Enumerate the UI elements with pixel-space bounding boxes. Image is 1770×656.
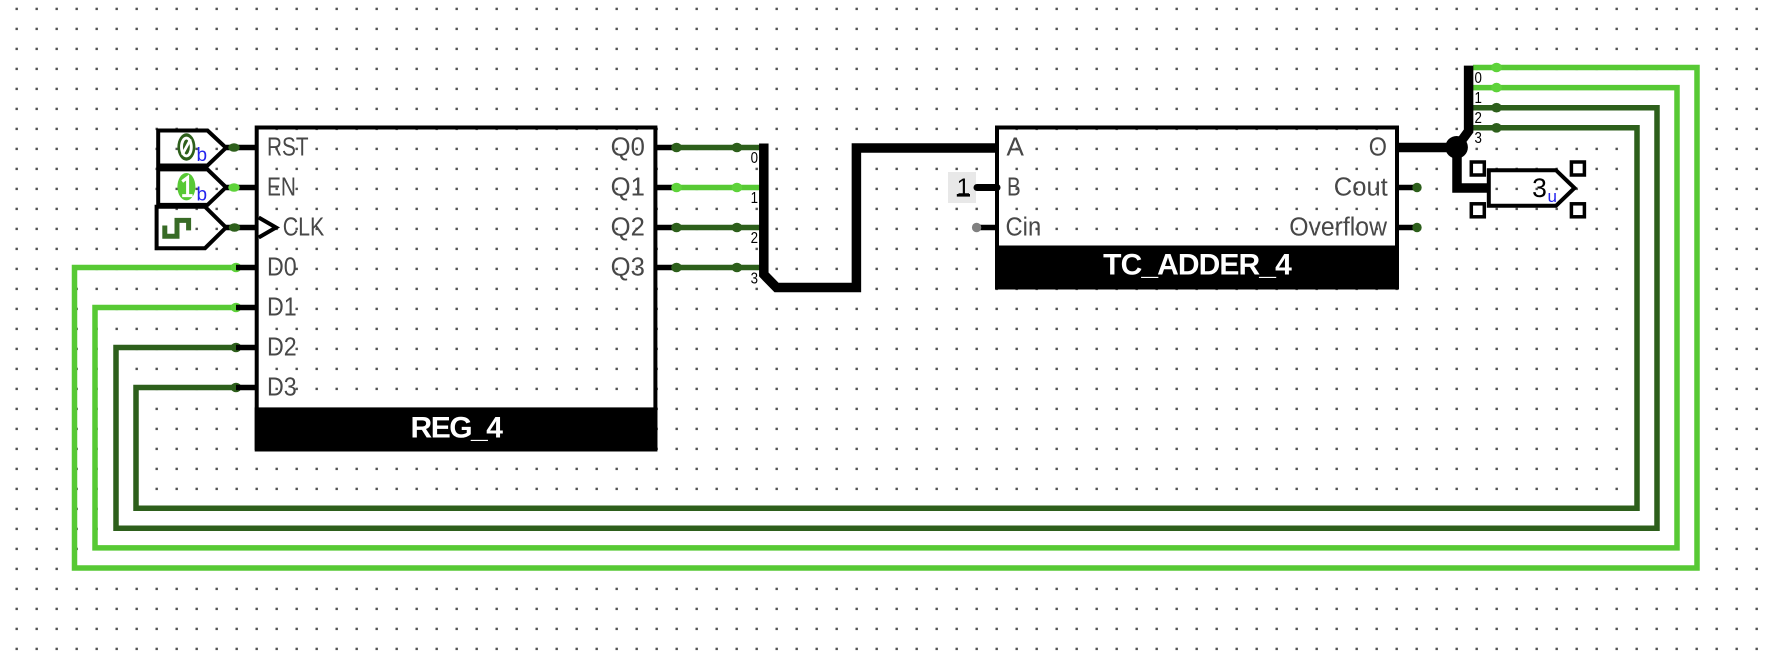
svg-text:b: b <box>197 185 208 206</box>
REG_4 pin labels <box>267 134 645 402</box>
register REG_4 body <box>255 128 658 451</box>
Cin unconnected pin <box>972 223 997 232</box>
svg-text:1: 1 <box>1475 90 1482 107</box>
clock input tag <box>157 207 226 249</box>
constant input tag 0b (RST source) <box>158 131 226 167</box>
REG_4 D pin stubs <box>236 268 257 388</box>
svg-text:2: 2 <box>751 230 758 247</box>
wire Q3 (value 0) <box>655 263 760 273</box>
constant input tag 1b (EN source) <box>158 169 226 205</box>
bus merge splitter (Q bits to A bus) <box>751 144 997 288</box>
wire net O bit0 (feedback to D0, value 1) <box>75 63 1698 568</box>
svg-text:b: b <box>197 145 208 166</box>
svg-text:Q2: Q2 <box>611 214 645 242</box>
wire clock tag to CLK <box>226 223 257 232</box>
wire Q0 (value 0) <box>655 143 760 153</box>
selection handle top-left <box>1471 162 1484 175</box>
wire Q2 (value 0) <box>655 223 760 233</box>
wire tag1 to EN <box>226 183 257 192</box>
bus junction dot <box>1445 136 1468 159</box>
svg-text:D0: D0 <box>267 254 297 282</box>
REG_4 CLK edge wedge <box>259 218 276 238</box>
wire net O bit2 (feedback to D2, value 0) <box>116 103 1657 528</box>
svg-text:Q1: Q1 <box>611 174 645 202</box>
svg-text:D3: D3 <box>267 374 297 402</box>
svg-text:Q3: Q3 <box>611 254 645 282</box>
svg-text:3: 3 <box>1532 173 1547 203</box>
svg-text:A: A <box>1007 134 1024 162</box>
svg-text:RST: RST <box>267 134 309 162</box>
svg-text:2: 2 <box>1475 110 1482 127</box>
selection handle top-right <box>1571 162 1584 175</box>
svg-text:Cout: Cout <box>1334 174 1388 202</box>
adder TC_ADDER_4 body <box>995 128 1399 290</box>
wire tag0 to RST <box>226 143 257 152</box>
wire net O bit3 (feedback to D3, value 0) <box>136 123 1637 508</box>
bus split splitter (O bus to bits) <box>1457 66 1483 148</box>
bus wire O output to junction <box>1397 143 1457 153</box>
svg-text:3: 3 <box>1475 130 1482 147</box>
bus wire junction down to output tag <box>1457 148 1487 189</box>
TC_ADDER_4 pin labels <box>1006 134 1388 242</box>
wire Q1 (value 1) <box>655 183 760 193</box>
svg-text:0: 0 <box>751 150 759 167</box>
svg-text:0: 0 <box>1475 70 1483 87</box>
svg-text:1: 1 <box>751 190 758 207</box>
selection handle bottom-left <box>1471 204 1484 217</box>
svg-text:D2: D2 <box>267 334 297 362</box>
svg-text:O: O <box>1369 134 1387 162</box>
svg-text:Q0: Q0 <box>611 134 645 162</box>
svg-text:D1: D1 <box>267 294 297 322</box>
svg-text:REG_4: REG_4 <box>411 412 504 445</box>
Overflow unconnected output <box>1397 223 1422 232</box>
svg-text:CLK: CLK <box>283 214 325 242</box>
svg-text:1: 1 <box>957 174 971 201</box>
svg-text:Cin: Cin <box>1006 214 1042 242</box>
svg-text:3: 3 <box>751 270 758 287</box>
wire net O bit1 (feedback to D1, value 1) <box>95 83 1677 548</box>
constant 1 (B input source) <box>948 172 997 203</box>
output tag 3u (selected) <box>1489 170 1575 206</box>
svg-text:Overflow: Overflow <box>1289 214 1387 242</box>
selection handle bottom-right <box>1571 204 1584 217</box>
svg-text:TC_ADDER_4: TC_ADDER_4 <box>1103 249 1292 282</box>
Cout unconnected output <box>1397 183 1422 192</box>
svg-text:B: B <box>1007 174 1021 202</box>
svg-text:EN: EN <box>267 174 296 202</box>
svg-text:u: u <box>1548 187 1557 206</box>
